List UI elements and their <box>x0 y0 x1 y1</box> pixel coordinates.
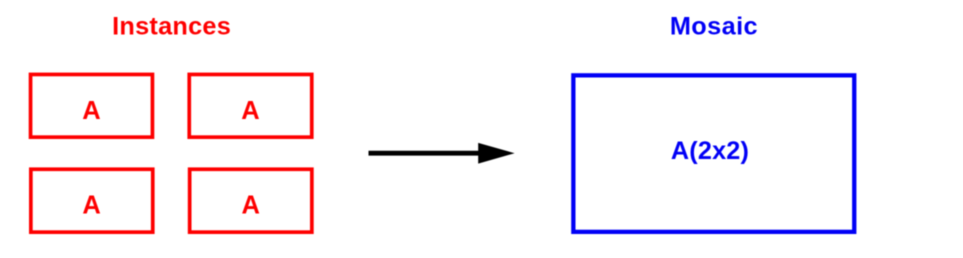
svg-text:A: A <box>241 192 259 220</box>
label A1 <box>82 97 100 125</box>
instance box A2 (top-right) <box>189 74 312 137</box>
instance box A1 (top-left) <box>31 74 153 137</box>
svg-text:A: A <box>241 97 259 125</box>
svg-text:A: A <box>82 97 100 125</box>
svg-text:A: A <box>82 192 100 220</box>
mosaic box <box>573 75 854 232</box>
svg-text:Instances: Instances <box>112 13 231 41</box>
title Instances <box>112 13 231 41</box>
instance box A3 (bottom-left) <box>31 169 153 232</box>
svg-text:Mosaic: Mosaic <box>670 13 758 41</box>
label A3 <box>82 192 100 220</box>
label A4 <box>241 192 259 220</box>
label A(2x2) <box>671 137 749 165</box>
instance box A4 (bottom-right) <box>190 169 312 232</box>
title Mosaic <box>670 13 758 41</box>
label A2 <box>241 97 259 125</box>
arrow (instances to mosaic) <box>369 143 515 164</box>
svg-text:A(2x2): A(2x2) <box>671 137 749 165</box>
